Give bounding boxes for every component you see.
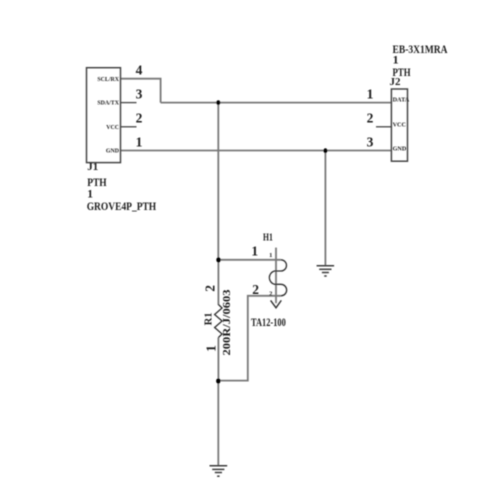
svg-text:EB-3X1MRA: EB-3X1MRA <box>393 44 449 56</box>
svg-text:PTH: PTH <box>87 177 106 189</box>
svg-text:1: 1 <box>87 189 93 201</box>
svg-text:SDA/TX: SDA/TX <box>97 101 119 107</box>
svg-text:200R/J/0603: 200R/J/0603 <box>222 290 233 356</box>
svg-text:2: 2 <box>367 111 374 126</box>
svg-text:DATA: DATA <box>393 97 410 104</box>
svg-text:2: 2 <box>252 282 259 297</box>
svg-text:4: 4 <box>136 63 143 78</box>
svg-text:3: 3 <box>367 135 374 150</box>
svg-text:1: 1 <box>367 86 374 101</box>
svg-text:GND: GND <box>393 145 407 152</box>
svg-text:2: 2 <box>136 111 143 126</box>
svg-text:VCC: VCC <box>106 125 119 131</box>
svg-text:R1: R1 <box>202 312 214 325</box>
svg-text:J2: J2 <box>390 76 402 88</box>
svg-text:H1: H1 <box>263 232 273 243</box>
svg-text:1: 1 <box>269 252 272 259</box>
svg-text:TA12-100: TA12-100 <box>251 317 286 329</box>
svg-text:2: 2 <box>269 290 272 297</box>
svg-text:J1: J1 <box>87 161 98 173</box>
svg-text:1: 1 <box>393 53 399 67</box>
svg-text:VCC: VCC <box>393 121 406 128</box>
svg-text:2: 2 <box>203 285 218 292</box>
svg-text:GND: GND <box>106 149 119 155</box>
svg-text:SCL/RX: SCL/RX <box>97 77 119 83</box>
svg-text:GROVE4P_PTH: GROVE4P_PTH <box>87 201 157 213</box>
svg-text:3: 3 <box>136 86 143 101</box>
svg-text:1: 1 <box>203 345 218 352</box>
svg-text:1: 1 <box>136 135 143 150</box>
svg-text:1: 1 <box>251 244 258 259</box>
